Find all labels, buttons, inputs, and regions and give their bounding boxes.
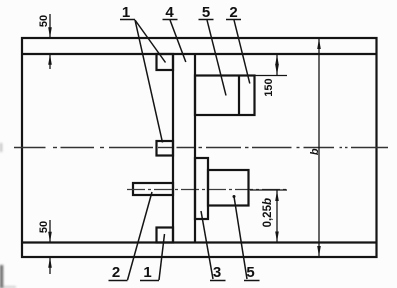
- leader from 5 to bracket: [207, 20, 226, 96]
- svg-text:2: 2: [229, 4, 237, 21]
- leader from 3 to plate: [201, 211, 213, 279]
- dimension text 50 bottom: [38, 221, 50, 233]
- svg-text:50: 50: [38, 221, 50, 233]
- svg-text:b: b: [309, 148, 321, 155]
- svg-text:1: 1: [143, 264, 151, 281]
- svg-text:150: 150: [263, 78, 275, 96]
- leader from bottom 1 to bottom notch: [159, 234, 165, 280]
- dimension text 150: [263, 78, 275, 96]
- callout label 1 top: [120, 4, 135, 21]
- top flange inner line: [22, 53, 377, 55]
- bottom flange inner line: [22, 241, 377, 243]
- dimension text b: [309, 148, 321, 155]
- callout label 2 top: [226, 4, 241, 21]
- svg-text:0,25b: 0,25b: [262, 198, 274, 227]
- extension line for 150 dimension: [255, 75, 288, 77]
- stub bar detail 2: [133, 183, 173, 195]
- block detail 5: [208, 170, 249, 206]
- callout label 1 bottom: [140, 264, 159, 281]
- outer plate outline: [22, 38, 377, 257]
- leader from 1 to top notch: [135, 20, 166, 63]
- callout label 3 bottom: [210, 264, 226, 281]
- column 4 right edge: [194, 54, 196, 243]
- center notch detail 1: [157, 141, 174, 156]
- scan smudge left bottom edge: [0, 143, 16, 288]
- callout label 5 top: [199, 4, 214, 21]
- extension line for 0.25b dimension: [250, 189, 287, 191]
- svg-text:50: 50: [38, 15, 50, 27]
- top notch detail 1: [157, 54, 174, 70]
- svg-text:1: 1: [122, 4, 130, 21]
- dimension b line and arrows: [317, 38, 321, 257]
- top bracket divider detail 2: [238, 76, 240, 116]
- callout label 4: [163, 4, 178, 21]
- leader from 4 to column: [170, 20, 186, 62]
- svg-text:4: 4: [165, 4, 174, 21]
- top bracket rectangle: [195, 76, 255, 116]
- dimension 0,25b line and arrows: [275, 190, 279, 243]
- dimension 150 line and arrows: [275, 54, 279, 76]
- callout label 2 bottom: [109, 264, 128, 281]
- bottom notch detail 1: [157, 228, 174, 243]
- leader from bottom 5 to block: [233, 195, 248, 279]
- stub axis dash-dot: [127, 189, 287, 191]
- dimension text 0,25b: [262, 198, 274, 227]
- leader from 1 to center notch: [135, 20, 163, 143]
- column 4 left edge: [172, 54, 174, 243]
- leader from 2 to bracket strip: [234, 20, 250, 84]
- leader from bottom 2 to stub: [128, 192, 153, 280]
- svg-text:3: 3: [213, 264, 221, 281]
- dimension 50 bottom line and arrows: [48, 220, 52, 274]
- dimension 50 top line and arrows: [48, 14, 52, 69]
- callout label 5 bottom: [244, 264, 260, 281]
- main centerline: [14, 147, 388, 149]
- dimension text 50 top: [38, 15, 50, 27]
- svg-text:2: 2: [112, 264, 120, 281]
- svg-text:5: 5: [202, 4, 210, 21]
- plate detail 3: [195, 158, 208, 219]
